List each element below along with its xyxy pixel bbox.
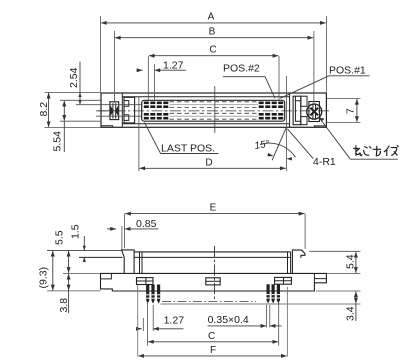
dimension 3.8	[63, 272, 101, 274]
shell left end separator	[121, 93, 123, 127]
base bar outline	[101, 273, 327, 291]
dimension 5.4	[309, 250, 360, 252]
right solder tab	[275, 277, 292, 284]
ne	[353, 145, 362, 156]
horizontal centerline of top view	[96, 110, 330, 112]
left screw slot bars	[112, 103, 114, 118]
dimension B	[113, 31, 115, 103]
dimension D	[138, 97, 140, 171]
left block bottom step	[101, 126, 113, 128]
i (katakana)	[384, 146, 390, 156]
top view outer shell body	[101, 93, 326, 127]
dimension E	[124, 214, 126, 248]
dimension 5.54	[60, 99, 101, 101]
right screw housing square	[309, 102, 320, 122]
right block bottom step	[314, 126, 326, 127]
right hook latch	[292, 250, 305, 273]
svg-text:A: A	[208, 12, 215, 23]
shell inner bottom edge	[122, 123, 289, 125]
svg-text:8.2: 8.2	[38, 102, 50, 117]
svg-text:LAST POS.: LAST POS.	[161, 143, 215, 155]
svg-text:2.54: 2.54	[68, 67, 80, 88]
svg-text:5.54: 5.54	[52, 131, 64, 152]
ji	[364, 146, 372, 155]
svg-text:F: F	[210, 345, 216, 356]
right latch bracket	[293, 96, 301, 125]
svg-text:1.5: 1.5	[70, 224, 82, 239]
right screw cross	[310, 108, 318, 116]
pin field left group	[144, 102, 169, 120]
ledge bottom line	[79, 256, 123, 258]
15 degree arc	[260, 143, 296, 157]
housing left face double line	[139, 252, 141, 274]
svg-text:1.27: 1.27	[164, 314, 185, 326]
svg-text:4-R1: 4-R1	[313, 156, 336, 168]
dimension (9.3)	[47, 290, 101, 292]
pin row center light lines	[170, 104, 259, 106]
svg-text:7: 7	[345, 108, 357, 114]
dimension A	[99, 16, 101, 92]
15 degree slant line	[272, 127, 286, 160]
housing top edge main	[134, 251, 291, 253]
svg-text:C: C	[209, 44, 216, 55]
dimension 0.85	[121, 226, 123, 250]
svg-text:POS.#2: POS.#2	[223, 63, 260, 75]
left solder tab	[137, 278, 154, 285]
shell inner top edge	[122, 96, 289, 98]
pin row continuation dashed lines	[170, 102, 259, 119]
center solder tab	[206, 278, 220, 285]
right screw slot bars	[312, 103, 314, 119]
left pins	[146, 285, 160, 304]
screw size leader	[320, 119, 350, 160]
left screw horizontal centerline	[98, 110, 121, 112]
dimension 3.4	[316, 290, 360, 292]
svg-text:3.4: 3.4	[345, 306, 357, 321]
shell right end separator	[289, 93, 291, 127]
dimension C bottom	[147, 331, 149, 346]
pin field right group	[259, 102, 284, 120]
svg-text:E: E	[210, 203, 217, 214]
svg-text:15°: 15°	[254, 139, 271, 152]
housing right face double line	[287, 252, 289, 274]
insulator container rounded rect	[142, 100, 285, 121]
svg-text:5.4: 5.4	[345, 254, 357, 269]
dimension 7	[327, 97, 360, 99]
screw size underline	[350, 158, 398, 160]
svg-text:1.27: 1.27	[163, 59, 184, 71]
housing top edge (left ledge)	[47, 249, 122, 251]
dimension F	[137, 285, 139, 357]
dimension 8.2	[45, 127, 102, 129]
zu (katakana su + dakuten)	[391, 145, 399, 155]
dimension 1.5	[83, 236, 85, 250]
svg-text:POS.#1: POS.#1	[329, 65, 366, 77]
svg-text:0.85: 0.85	[136, 218, 157, 230]
left screw housing	[110, 102, 119, 120]
dimension 2.54	[45, 91, 102, 93]
base right block lines	[314, 273, 326, 282]
svg-text:0.35×0.4: 0.35×0.4	[208, 314, 249, 326]
vertical centerline of top view	[214, 86, 216, 133]
right pins	[267, 284, 281, 303]
right screw circle	[307, 104, 322, 119]
svg-text:5.5: 5.5	[54, 230, 66, 245]
housing second line	[134, 256, 291, 258]
svg-text:3.8: 3.8	[58, 298, 70, 313]
svg-text:D: D	[205, 157, 212, 168]
svg-text:(9.3): (9.3)	[38, 267, 50, 289]
dimension 1.27 top	[154, 64, 156, 100]
screw size (nejisaizu) japanese label drawn as vector strokes	[353, 145, 398, 156]
left latch bracket	[124, 97, 135, 123]
svg-text:B: B	[209, 26, 216, 37]
dimension 5.5	[68, 251, 70, 273]
dimension 0.35x0.4	[265, 305, 267, 328]
pin tip extension line	[161, 303, 361, 305]
left wall (0.85 lip)	[122, 250, 134, 274]
side view vertical centerline	[214, 246, 216, 301]
base top-left notch	[101, 273, 112, 279]
left screw cross wedges	[111, 106, 114, 116]
dimension 1.27 bottom	[147, 302, 149, 331]
row centerline extensions through left block	[76, 104, 142, 106]
svg-text:C: C	[208, 331, 215, 342]
dimension C top	[147, 56, 149, 100]
break centerline through pins	[162, 301, 256, 303]
sa	[373, 146, 381, 156]
